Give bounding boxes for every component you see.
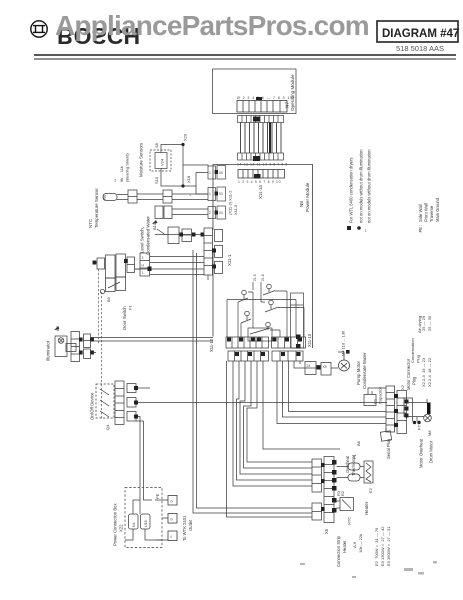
svg-text:Heater: Heater (342, 540, 347, 553)
svg-text:Power Connection Box: Power Connection Box (113, 502, 118, 546)
svg-text:A-6: A-6 (352, 541, 357, 548)
svg-text:Level Switch,: Level Switch, (140, 227, 145, 253)
svg-text:05: 05 (219, 171, 223, 175)
NTC body (103, 190, 208, 203)
X9 boxes (305, 362, 338, 376)
svg-text:E2: E2 (368, 487, 373, 493)
svg-text:X11-10: X11-10 (307, 333, 312, 347)
svg-text:PE: PE (155, 493, 160, 499)
svg-text:X6: X6 (324, 528, 329, 534)
svg-text:NTC: NTC (88, 219, 93, 228)
svg-text:F1: F1 (352, 454, 357, 459)
svg-text:X22: X22 (119, 524, 124, 532)
scan specks (300, 561, 437, 578)
svg-text:M8: M8 (427, 430, 432, 436)
svg-text:Side Wall: Side Wall (418, 204, 423, 222)
capacitor C1 (364, 388, 386, 406)
svg-text:X2.2-4 18 — 22: X2.2-4 18 — 22 (427, 357, 432, 387)
svg-text:N8: N8 (299, 201, 304, 207)
X6 heater connection strip (312, 457, 334, 523)
svg-text:Plug: Plug (416, 355, 421, 363)
svg-text:X11-5: X11-5 (233, 204, 238, 215)
moisture sensor V24 (150, 150, 171, 171)
svg-text:10k — 22k: 10k — 22k (358, 534, 363, 553)
svg-text:1: 1 (209, 192, 211, 196)
dashed drop from door switch (99, 269, 102, 420)
svg-text:NTC: NTC (347, 517, 352, 525)
svg-text:↕: ↕ (365, 228, 368, 234)
svg-text:1: 1 (142, 271, 144, 275)
svg-text:To WTK 2401: To WTK 2401 (182, 515, 187, 541)
svg-text:9k ... 11k: 9k ... 11k (119, 166, 124, 182)
relay wiring (227, 282, 304, 341)
svg-text:PE :: PE : (418, 225, 423, 233)
svg-text:X18: X18 (186, 175, 191, 183)
svg-text:24: 24 (307, 364, 311, 368)
svg-text:Plug: Plug (412, 376, 417, 385)
node X18 (181, 184, 184, 187)
svg-text:Overheat: Overheat (345, 455, 350, 473)
svg-text:Power Module: Power Module (305, 182, 310, 212)
svg-text:Q4: Q4 (105, 424, 110, 430)
svg-text:Traverse: Traverse (429, 205, 434, 222)
diagram number box (377, 21, 459, 53)
svg-text:X11-1: X11-1 (227, 254, 232, 266)
svg-text:F1: F1 (128, 305, 133, 310)
svg-text:Air-drying: Air-drying (417, 316, 422, 333)
svg-text:1: 1 (209, 171, 211, 175)
wires X11-1 left (135, 257, 204, 275)
wire S8 to X20 (161, 145, 208, 195)
svg-text:Door Switch: Door Switch (122, 306, 127, 330)
svg-text:Main Ground: Main Ground (435, 197, 440, 222)
svg-text:S8: S8 (154, 142, 159, 148)
svg-text:On/Off Device: On/Off Device (90, 392, 95, 420)
svg-text:V24: V24 (160, 158, 165, 166)
X11-1 connector (204, 228, 223, 275)
staircase wires from X11-10 to X2 (277, 361, 386, 424)
svg-text:(Bearing Shield): (Bearing Shield) (125, 153, 130, 182)
svg-text:Motor Overheat: Motor Overheat (419, 438, 424, 468)
ribbon wires (241, 123, 282, 154)
svg-text:E2 700W = 31 — 76: E2 700W = 31 — 76 (374, 527, 379, 566)
WTK outlet terminals (168, 496, 177, 541)
svg-text:R3: R3 (337, 491, 341, 496)
svg-text:03: 03 (219, 192, 223, 196)
svg-text:E3 1600W = 27 — 31: E3 1600W = 27 — 31 (386, 526, 391, 566)
drum motor M8 cluster (427, 403, 431, 415)
svg-text:3: 3 (142, 256, 144, 260)
aux box right inside module (291, 293, 304, 348)
R2 NTC (337, 498, 354, 511)
svg-text:B9: B9 (106, 296, 111, 302)
svg-text:Condensated Water: Condensated Water (146, 216, 151, 255)
svg-text:Moisture Sensors: Moisture Sensors (139, 142, 144, 177)
relay K1 (238, 284, 277, 334)
serial plug (380, 428, 391, 441)
bosch logo symbol (31, 21, 47, 37)
svg-text:X2.2-3 19 — 23: X2.2-3 19 — 23 (421, 357, 426, 387)
svg-text:**: ** (113, 178, 118, 182)
power module N8 box (213, 165, 313, 349)
ribbon bottom connector (238, 153, 284, 160)
svg-text:2: 2 (209, 211, 211, 215)
X2 motor connector plug (386, 386, 413, 434)
svg-text:Serial Plug: Serial Plug (386, 438, 391, 459)
node X20 (181, 143, 184, 146)
svg-text:Ø 2 3 4 5 6 — 7 8 9 10*: Ø 2 3 4 5 6 — 7 8 9 10* (237, 96, 295, 100)
svg-text:Condensation: Condensation (410, 338, 415, 363)
svg-text:X2: X2 (400, 384, 405, 390)
svg-text:B8: B8 (356, 440, 361, 446)
svg-text:AppliancePartsPros.com: AppliancePartsPros.com (55, 10, 369, 41)
trunk from X11-1 down (193, 250, 312, 513)
svg-text:(X11-2) X11-2: (X11-2) X11-2 (228, 190, 233, 215)
pump motor M4 (338, 352, 350, 371)
svg-text:Temperature Sensor: Temperature Sensor (94, 188, 99, 228)
svg-text:Front Wall: Front Wall (424, 203, 429, 222)
op module connector strip (237, 101, 287, 113)
svg-text:X11-12: X11-12 (209, 338, 214, 352)
svg-text:E3 1300W = 27 — 42: E3 1300W = 27 — 42 (380, 526, 385, 566)
svg-text:518 5018 AAS: 518 5018 AAS (396, 44, 444, 53)
svg-text:21.8: 21.8 (261, 274, 265, 281)
svg-text:For WTL 5400 condensation drye: For WTL 5400 condensation dryers (349, 158, 354, 223)
svg-text:21.5: 21.5 (253, 274, 257, 281)
svg-text:Operating Module: Operating Module (290, 74, 295, 111)
svg-text:X11-14: X11-14 (258, 185, 263, 199)
svg-text:not on models without drum ill: not on models without drum illumination (359, 149, 364, 223)
svg-text:Pump Motor: Pump Motor (356, 361, 361, 385)
door switch F1 (93, 254, 140, 294)
legend (347, 226, 351, 230)
svg-text:X20: X20 (183, 133, 188, 141)
svg-text:Drum Motor: Drum Motor (429, 440, 434, 463)
svg-text:U15: U15 (144, 520, 148, 527)
trunk wires from X11-12 down (227, 361, 341, 517)
svg-text:Connection Strip: Connection Strip (336, 535, 341, 567)
svg-text:not on models without drum ill: not on models without drum illumination (367, 149, 372, 223)
svg-text:DIAGRAM #47: DIAGRAM #47 (382, 28, 459, 40)
svg-text:R2: R2 (341, 491, 345, 496)
second sensor row (155, 206, 208, 219)
ribbon top connector (238, 116, 284, 123)
svg-text:04: 04 (219, 211, 223, 215)
double rule (34, 54, 456, 56)
svg-text:F7: F7 (417, 425, 422, 430)
svg-text:X9: X9 (323, 365, 327, 369)
X11-12 connector row1 (226, 337, 306, 348)
X11-14 strip (238, 170, 285, 179)
svg-text:25 — 30: 25 — 30 (427, 315, 432, 331)
svg-text:Capacitor: Capacitor (378, 386, 383, 404)
door connector (140, 253, 150, 276)
X11-12 connector row2 (228, 351, 303, 361)
svg-text:M4 110 ... 136: M4 110 ... 136 (341, 330, 346, 356)
svg-text:Illuminator: Illuminator (46, 340, 51, 361)
svg-text:1 2 3 4 5 6 7 8 9 10: 1 2 3 4 5 6 7 8 9 10 (238, 180, 281, 184)
svg-text:S10: S10 (154, 176, 159, 184)
op module N7 box (213, 69, 297, 114)
svg-text:Condensate Water: Condensate Water (362, 352, 367, 389)
svg-text:Heater: Heater (364, 501, 369, 515)
X11-2 X11-5 connector pairs (208, 166, 226, 220)
svg-text:N4: N4 (132, 522, 136, 527)
svg-text:Outlet: Outlet (188, 519, 193, 531)
